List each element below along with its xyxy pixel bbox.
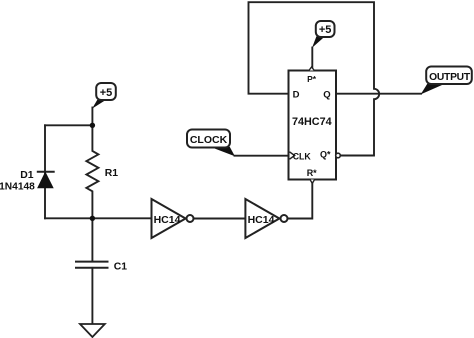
svg-text:1N4148: 1N4148 xyxy=(0,182,35,193)
svg-text:D: D xyxy=(293,89,300,100)
svg-text:R1: R1 xyxy=(105,168,119,179)
svg-text:P*: P* xyxy=(307,74,317,84)
svg-text:D1: D1 xyxy=(20,170,34,181)
svg-text:CLK: CLK xyxy=(293,151,312,161)
svg-text:C1: C1 xyxy=(114,262,128,273)
svg-text:HC14: HC14 xyxy=(154,214,181,226)
svg-text:Q*: Q* xyxy=(320,150,331,160)
svg-text:R*: R* xyxy=(307,168,317,178)
svg-text:+5: +5 xyxy=(319,24,332,36)
svg-text:CLOCK: CLOCK xyxy=(190,134,228,146)
svg-text:Q: Q xyxy=(323,89,330,100)
svg-text:74HC74: 74HC74 xyxy=(292,116,332,128)
svg-text:HC14: HC14 xyxy=(248,214,275,226)
svg-text:OUTPUT: OUTPUT xyxy=(429,72,471,83)
svg-text:+5: +5 xyxy=(100,87,113,99)
